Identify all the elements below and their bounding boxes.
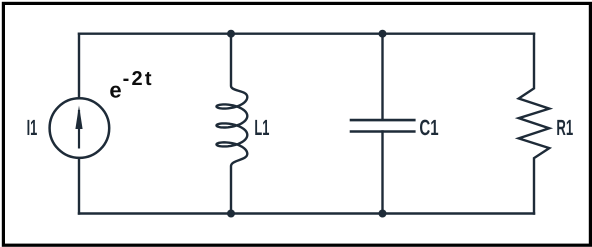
svg-text:L1: L1 [254, 115, 269, 140]
wire bottom rail [79, 212, 534, 214]
wire left branch bottom [78, 158, 80, 213]
capacitor C1 [351, 120, 414, 131]
node dot bottom L1 [227, 210, 235, 218]
resistor R1 [519, 34, 550, 214]
wire capacitor top lead [381, 34, 383, 120]
wire top rail [79, 33, 534, 35]
svg-text:R1: R1 [556, 115, 573, 140]
svg-text:-2t: -2t [123, 68, 152, 90]
node dot bottom C1 [379, 210, 387, 218]
node dot top C1 [379, 30, 387, 38]
node dot top L1 [227, 30, 235, 38]
svg-text:e: e [109, 77, 121, 102]
svg-text:C1: C1 [419, 115, 438, 140]
wire left branch top [78, 34, 80, 98]
wire capacitor bottom lead [381, 132, 383, 214]
inductor L1 [217, 34, 248, 214]
svg-text:I1: I1 [27, 115, 38, 140]
current source I1 [50, 98, 110, 158]
arrow of current source [75, 106, 82, 149]
